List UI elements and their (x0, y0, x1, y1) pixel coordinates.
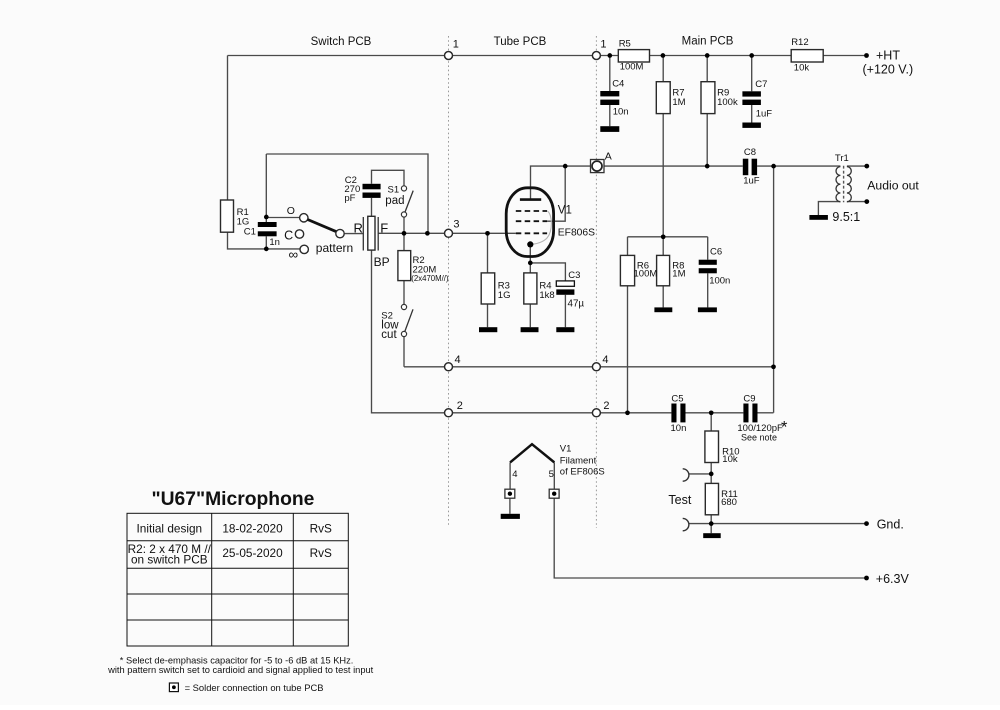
wire left vertical to R1 (227, 56, 229, 201)
node 2 circle switch pcb (445, 409, 453, 417)
wire filament pin5 stem (553, 462, 555, 489)
tube V1 g3-cathode internal strap (533, 211, 552, 244)
legend solder square (169, 683, 178, 692)
wire transformer secondary bottom lead (847, 201, 867, 203)
wire R10 bottom to test junction (710, 463, 712, 484)
svg-text:C9: C9 (743, 393, 755, 404)
junction C7 / +HT rail (749, 53, 754, 58)
svg-text:= Solder connection on tube PC: = Solder connection on tube PCB (185, 682, 324, 693)
junction R3 / node 3 rail (485, 231, 490, 236)
wire R8 bottom to ground (662, 286, 664, 308)
pattern switch contact C (295, 230, 303, 238)
wire C1 top junction to O contact (266, 217, 299, 219)
pattern switch pivot (336, 229, 344, 237)
wire R3 bottom to ground (487, 304, 489, 327)
svg-text:O: O (287, 205, 295, 217)
wire R1 bottom to infinity contact (228, 232, 300, 249)
svg-text:10k: 10k (794, 63, 810, 74)
ground bar C3 (556, 327, 574, 332)
wire C1 vertical and inner box top (265, 154, 267, 222)
wire C1 bottom stem (265, 236, 267, 249)
tube V1 anode plate (520, 198, 541, 201)
svg-text:pattern: pattern (316, 241, 353, 255)
svg-text:1M: 1M (672, 268, 685, 279)
test point arc upper (683, 469, 689, 481)
svg-text:C3: C3 (568, 270, 580, 281)
wire net2 rail between C5 and C9 (686, 412, 744, 414)
svg-text:Tr1: Tr1 (835, 153, 849, 164)
svg-text:RvS: RvS (310, 546, 332, 560)
node 4 circle switch pcb (445, 363, 453, 371)
wire vertical C8 junction down to net2 (773, 166, 775, 413)
wire R7 bottom long vertical to R6R8C6 rail (662, 114, 664, 237)
filament V1 heater (510, 444, 554, 462)
svg-text:with pattern switch set to car: with pattern switch set to cardioid and … (107, 665, 374, 675)
junction R7 / +HT rail (661, 53, 666, 58)
wire inner loop box to node3 rail (266, 154, 428, 233)
svg-text:R5: R5 (619, 38, 631, 49)
switch S1 top contact (401, 186, 406, 191)
wire filament pin4 stem (509, 462, 511, 489)
terminal dot audio out + (864, 164, 869, 169)
svg-text:2: 2 (603, 400, 609, 412)
resistor R1 (221, 200, 234, 232)
svg-text:Switch PCB: Switch PCB (311, 36, 372, 48)
svg-text:EF806S: EF806S (558, 227, 595, 238)
wire capsule right to tube grid g1 (node 3 rail) (378, 232, 516, 234)
wire net2 rail after C9 (758, 412, 774, 414)
wire S2 to net4 rail (403, 337, 405, 367)
svg-text:(2x470M//): (2x470M//) (411, 274, 449, 283)
revision table grid (127, 513, 348, 646)
junction R9 / +HT rail (705, 53, 710, 58)
svg-text:9.5:1: 9.5:1 (832, 210, 860, 224)
capacitor C4 (600, 91, 619, 105)
wire C8 right to transformer (757, 165, 840, 167)
junction R6 bottom / net 2 (625, 410, 630, 415)
svg-text:C4: C4 (612, 78, 624, 89)
capacitor C6 (699, 260, 717, 274)
svg-text:100M: 100M (620, 61, 644, 72)
svg-text:1: 1 (453, 39, 459, 51)
wire transformer secondary top lead (847, 165, 867, 167)
svg-text:pF: pF (344, 193, 355, 204)
terminal dot audio out - (864, 199, 869, 204)
ground bar C6 (698, 307, 717, 312)
wire anode lead of tube to A and C8 (531, 166, 743, 198)
svg-text:680: 680 (721, 497, 737, 508)
svg-text:of EF806S: of EF806S (560, 466, 605, 477)
capacitor C5 (671, 404, 685, 423)
svg-text:3: 3 (453, 219, 459, 231)
ground bar C7 (742, 123, 761, 128)
svg-text:1k8: 1k8 (539, 290, 554, 301)
wire C7 bottom stem (751, 105, 753, 123)
wire Gnd rail (711, 523, 866, 525)
svg-text:10n: 10n (613, 106, 629, 117)
capacitor C7 (742, 91, 761, 105)
svg-text:cut: cut (381, 329, 397, 341)
junction C5-C9 / R10 (709, 410, 714, 415)
svg-text:Tube PCB: Tube PCB (494, 36, 547, 48)
resistor R8 (657, 255, 670, 285)
svg-text:+HT: +HT (876, 48, 900, 62)
pattern switch contact O (300, 214, 308, 222)
capacitor C3 electrolytic plus plate (556, 281, 574, 286)
junction C8 output (771, 164, 776, 169)
wire cathode lead down (529, 244, 531, 263)
wire top rail +HT (228, 55, 867, 57)
pattern switch contact infinity (300, 245, 308, 253)
svg-text:4: 4 (455, 354, 461, 366)
svg-text:BP: BP (374, 255, 390, 269)
tube V1 grid g2 (516, 220, 547, 222)
svg-text:18-02-2020: 18-02-2020 (222, 521, 283, 535)
ground bar filament pin4 (501, 514, 520, 519)
solder connection A box (591, 160, 605, 173)
pattern switch arm (308, 220, 337, 232)
svg-text:2: 2 (457, 400, 463, 412)
junction C4 / +HT rail (607, 53, 612, 58)
wire test arc 1 to junction (689, 473, 711, 475)
svg-text:C6: C6 (710, 247, 722, 258)
svg-text:1n: 1n (269, 237, 280, 248)
wire screen grid g2 to anode junction (547, 166, 565, 221)
svg-text:Test: Test (668, 493, 691, 507)
svg-text:10k: 10k (722, 454, 738, 465)
svg-text:F: F (380, 220, 388, 235)
node 1 circle tube pcb (592, 52, 600, 60)
junction net 4 / C8 branch (771, 364, 776, 369)
junction loop box / node 3 rail (425, 231, 430, 236)
svg-text:"U67"Microphone: "U67"Microphone (151, 489, 314, 510)
resistor R3 (481, 273, 495, 304)
svg-text:1uF: 1uF (756, 109, 773, 120)
svg-text:*: * (781, 419, 788, 437)
svg-text:(+120 V.): (+120 V.) (863, 63, 914, 77)
tube V1 grid g1 (516, 232, 547, 234)
svg-text:R: R (354, 220, 363, 235)
terminal dot +6.3V (864, 576, 869, 581)
wire net 4 rail (404, 366, 774, 368)
solder square pin 5 (549, 489, 559, 498)
switch S2 arm (405, 309, 413, 331)
dotted separator Tube/Main PCB (595, 36, 597, 528)
wire C3 bottom to ground (564, 295, 566, 327)
wire R4 stem (529, 263, 531, 273)
resistor R2 (398, 251, 411, 281)
resistor R5 (618, 50, 649, 62)
svg-text:100k: 100k (717, 97, 738, 108)
svg-text:10n: 10n (671, 423, 687, 434)
wire R7 top stem (662, 56, 664, 82)
junction S1-R2 / node 3 rail (402, 231, 407, 236)
wire R3 stem from node3 rail (487, 233, 489, 273)
svg-text:1: 1 (600, 39, 606, 51)
svg-text:1G: 1G (237, 216, 250, 227)
svg-text:Filament: Filament (560, 455, 597, 466)
capsule BP membrane (368, 216, 375, 250)
svg-text:+6.3V: +6.3V (876, 572, 910, 586)
svg-text:S1: S1 (388, 184, 400, 195)
wire R4 bottom to ground (529, 304, 531, 327)
svg-text:V1: V1 (560, 444, 572, 455)
ground bar C4 (600, 126, 619, 132)
wire transformer primary bottom to ground (818, 202, 840, 215)
wire R6 top stem (627, 237, 629, 256)
svg-text:4: 4 (512, 469, 517, 480)
junction R10-R11 test point (709, 472, 714, 477)
svg-text:Audio out: Audio out (867, 178, 919, 192)
ground bar R4 (521, 327, 539, 332)
capsule BP left electrode (362, 217, 364, 251)
wire C6 bottom to ground (707, 273, 709, 307)
wire C2 top to S1 (372, 170, 405, 186)
wire C6 top stem (707, 237, 709, 260)
switch S1 bottom contact (401, 212, 406, 217)
capacitor C3 minus plate (556, 289, 574, 294)
svg-text:R12: R12 (791, 37, 808, 48)
dotted separator Switch/Tube PCB (448, 36, 450, 527)
resistor R11 (705, 483, 718, 514)
switch S2 bottom contact (401, 331, 406, 336)
resistor R4 (524, 273, 537, 304)
resistor R7 (656, 82, 670, 114)
svg-text:Main PCB: Main PCB (682, 36, 734, 48)
svg-text:C8: C8 (744, 147, 756, 158)
switch S2 top contact (401, 304, 406, 309)
svg-text:C: C (284, 228, 293, 242)
terminal dot +HT (864, 53, 869, 58)
svg-text:Gnd.: Gnd. (877, 518, 904, 532)
wire filament pin5 to +6.3V rail (554, 498, 866, 578)
wire R2 to S2 (403, 281, 405, 305)
wire node3 junction to R2 (403, 233, 405, 250)
svg-text:C5: C5 (671, 393, 683, 404)
transformer Tr1 primary winding (836, 167, 840, 202)
solder square pin 4 dot (508, 492, 512, 496)
capacitor C1 (258, 222, 277, 236)
svg-text:V1: V1 (558, 204, 572, 216)
junction R9 bottom / node A wire (705, 164, 710, 169)
junction R7 bottom / R8 rail (661, 234, 666, 239)
junction C1 bottom (264, 247, 269, 252)
svg-text:100n: 100n (709, 276, 730, 287)
wire C7 stem (751, 56, 753, 92)
resistor R6 (620, 255, 634, 285)
node 3 circle (445, 229, 453, 237)
wire C4 stem (609, 56, 611, 92)
wire R8 top stem (662, 237, 664, 256)
wire R6R8C6 rail (628, 236, 708, 238)
svg-text:C7: C7 (755, 79, 767, 90)
tube V1 grid g3 (516, 210, 547, 212)
svg-text:100M: 100M (634, 268, 658, 279)
node 4 circle tube pcb (592, 363, 600, 371)
svg-text:1uF: 1uF (743, 175, 760, 186)
ground bar R3 (479, 327, 497, 332)
wire R11 bottom to gnd junction (710, 515, 712, 533)
svg-text:∞: ∞ (289, 247, 299, 262)
svg-text:See note: See note (741, 433, 777, 443)
svg-text:4: 4 (602, 354, 608, 366)
wire C2 bottom stem to capsule (371, 198, 373, 216)
capacitor C2 (363, 184, 381, 198)
resistor R10 (705, 431, 719, 463)
wire C4 bottom stem (609, 105, 611, 126)
ground bar Tr1 primary (809, 215, 828, 220)
resistor R12 (791, 50, 823, 62)
svg-text:RvS: RvS (310, 521, 332, 535)
node 2 circle tube pcb (592, 409, 600, 417)
switch S1 arm (405, 191, 413, 213)
svg-text:C1: C1 (244, 227, 256, 238)
svg-text:1M: 1M (672, 97, 685, 108)
solder connection A circle (592, 161, 602, 171)
svg-text:5: 5 (549, 469, 554, 480)
svg-text:47µ: 47µ (568, 298, 585, 309)
ground bar R11 (703, 533, 721, 538)
ground bar R8 (654, 307, 672, 312)
wire S1 bottom to node3 rail (403, 217, 405, 233)
wire R9 bottom to anode wire (706, 114, 708, 167)
transformer Tr1 secondary winding (847, 167, 851, 202)
transformer Tr1 core (843, 166, 845, 202)
svg-text:Initial design: Initial design (137, 521, 203, 535)
tube V1 cathode dot (527, 241, 533, 247)
wire test arc 2 to junction (689, 523, 711, 525)
junction cathode / R4 / C3 (528, 261, 533, 266)
junction C1 top (264, 215, 269, 220)
svg-text:25-05-2020: 25-05-2020 (222, 546, 283, 560)
svg-text:A: A (605, 151, 612, 163)
svg-text:on switch PCB: on switch PCB (131, 552, 208, 566)
solder square pin 4 (505, 489, 515, 498)
resistor R9 (701, 82, 715, 114)
terminal dot Gnd (864, 521, 869, 526)
wire capsule bottom to net2 rail (372, 250, 672, 413)
capacitor C9 (743, 404, 757, 423)
wire R10 top stem (710, 413, 712, 431)
wire pivot to capsule left electrode (345, 233, 364, 235)
junction anode node A (563, 164, 568, 169)
wire R6 bottom long vertical to net2 (627, 286, 629, 413)
solder square pin 5 dot (552, 492, 556, 496)
test point arc lower (683, 518, 689, 530)
svg-text:1G: 1G (498, 290, 511, 301)
junction R11 / Gnd rail (709, 521, 714, 526)
node 1 circle switch pcb (445, 52, 453, 60)
legend solder square dot (172, 685, 176, 689)
wire cathode junction to C3 (530, 263, 565, 281)
svg-text:pad: pad (385, 195, 404, 207)
wire R9 top stem (706, 56, 708, 82)
tube V1 envelope (506, 188, 553, 257)
wire filament pin4 to ground (509, 498, 511, 514)
capsule BP right electrode (377, 217, 379, 251)
capacitor C8 (743, 159, 757, 176)
